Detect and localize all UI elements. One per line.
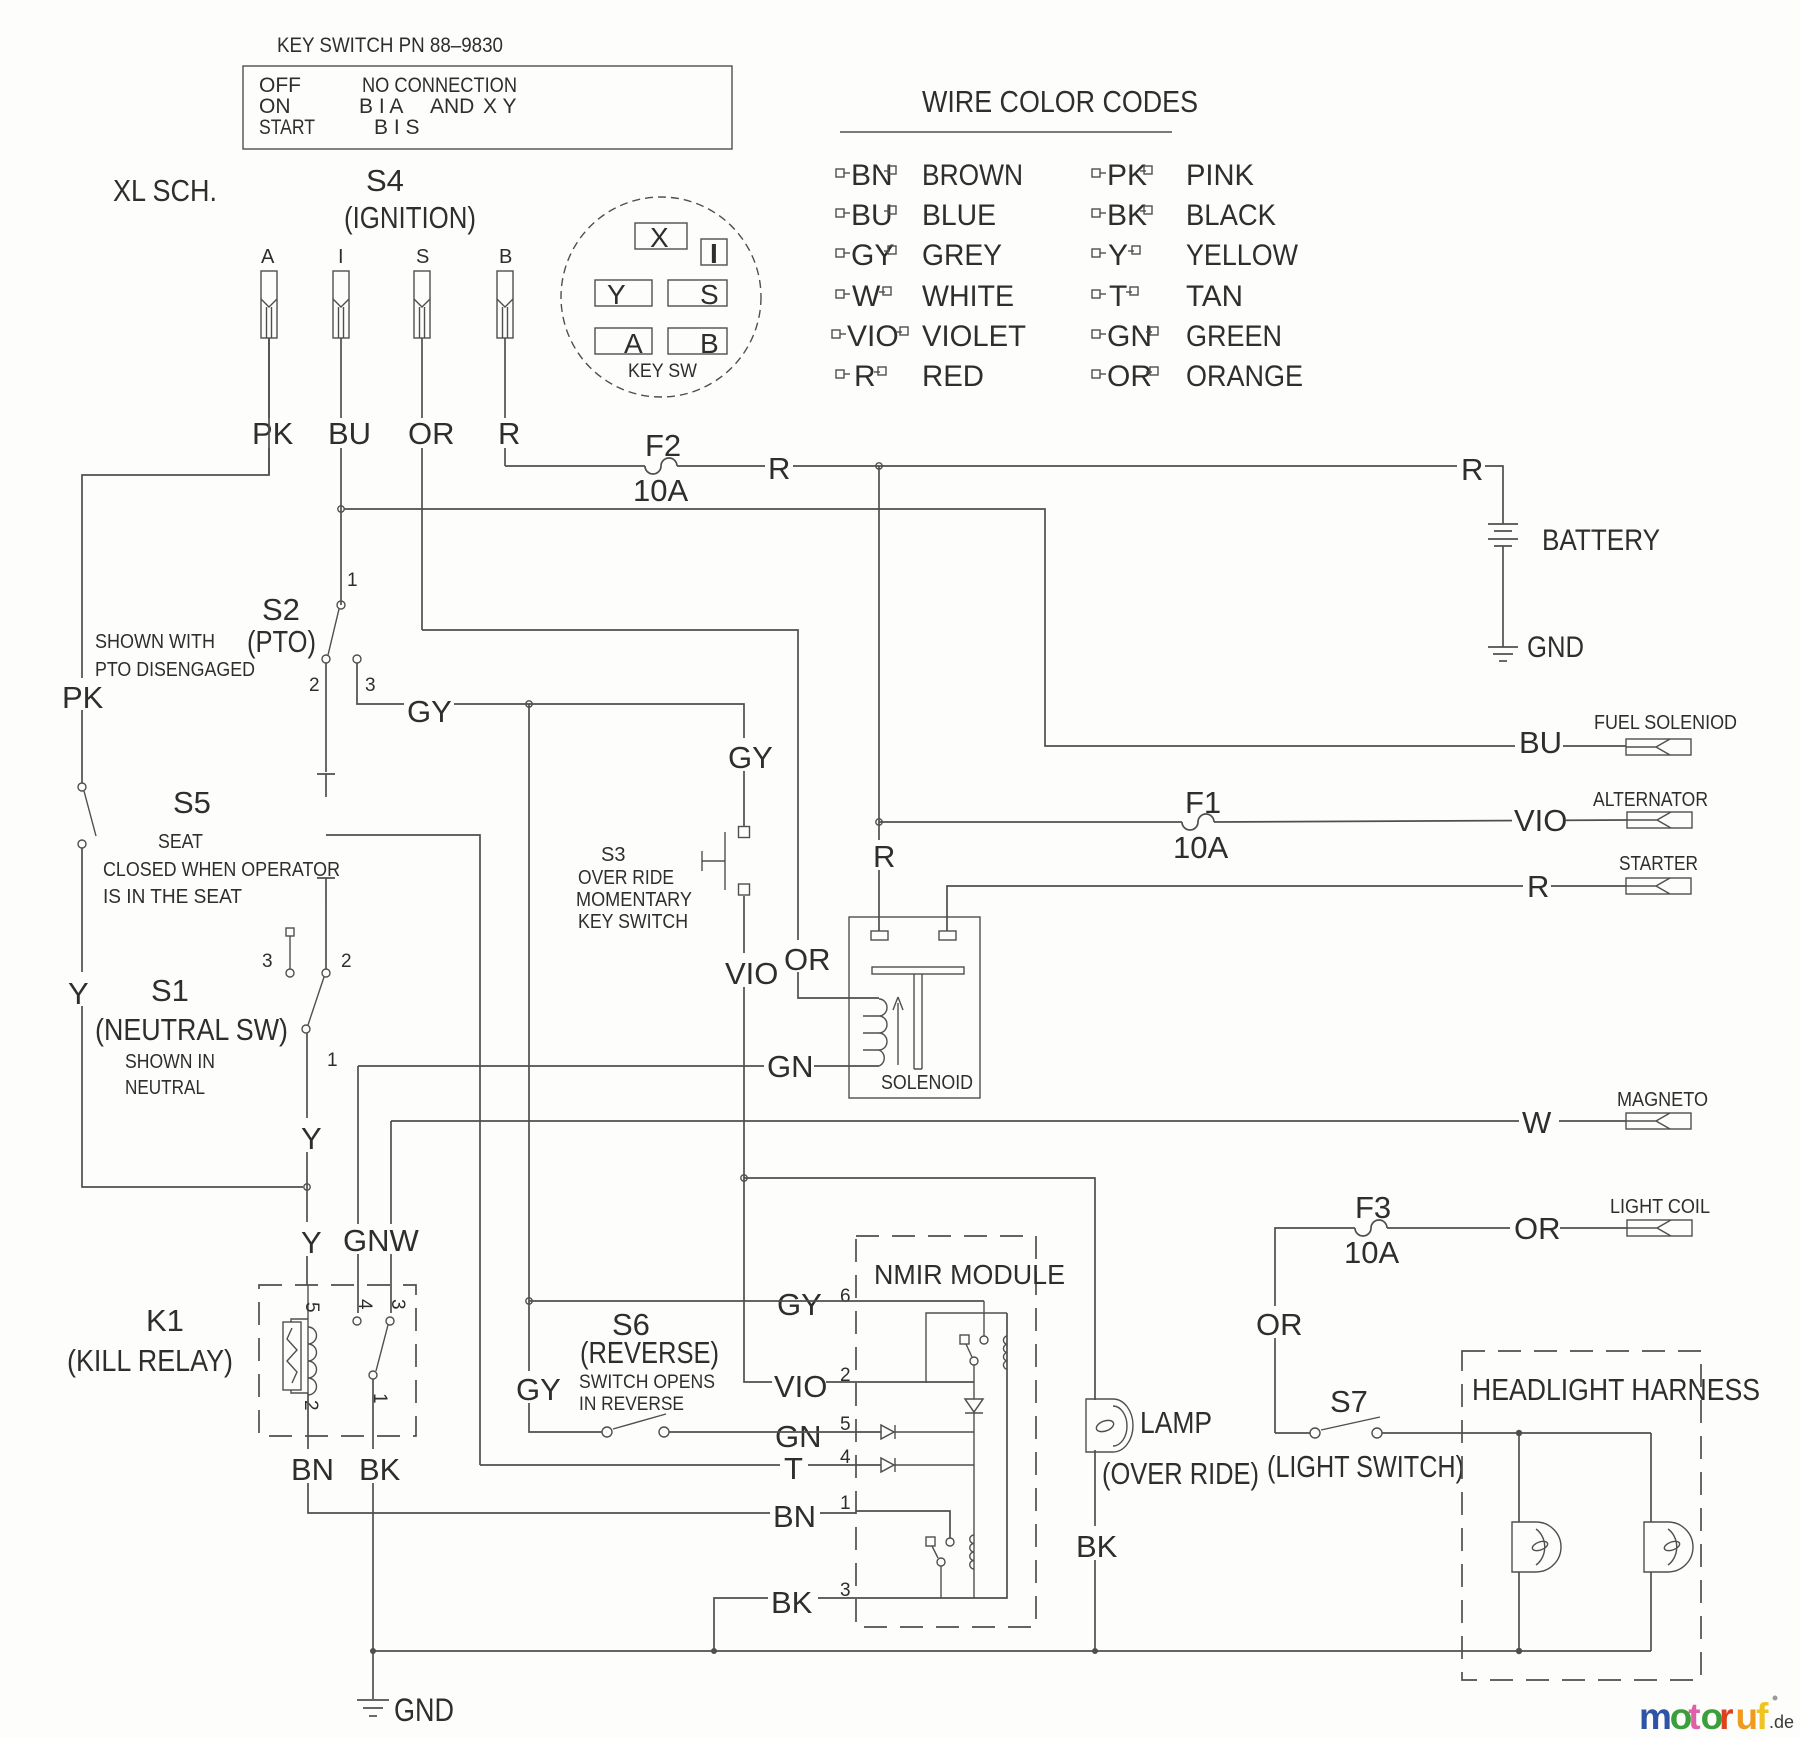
wire GY into pin6: [774, 1286, 824, 1322]
wire to right headlamp: [1650, 1433, 1652, 1522]
wire R label mid: [765, 451, 793, 486]
svg-text:10A: 10A: [1173, 830, 1228, 865]
wire OR label: [782, 940, 831, 977]
svg-text:NMIR MODULE: NMIR MODULE: [874, 1259, 1065, 1290]
headlamp right: [1644, 1522, 1693, 1572]
svg-text:1: 1: [347, 570, 358, 591]
svg-text:B: B: [499, 246, 512, 268]
wire pin S down: [421, 338, 423, 630]
svg-text:Y: Y: [607, 279, 626, 310]
wire GY from S2 pin3: [357, 663, 744, 826]
svg-text:5: 5: [301, 1302, 322, 1313]
wire OR label vertical: [1254, 1306, 1303, 1342]
svg-text:VIO: VIO: [847, 320, 899, 353]
svg-text:NEUTRAL: NEUTRAL: [125, 1077, 205, 1099]
svg-text:(REVERSE): (REVERSE): [580, 1335, 719, 1370]
node GY junction: [526, 701, 532, 707]
wire PK label: [250, 416, 294, 451]
legend row BN BROWN: [836, 159, 1023, 192]
legend row T TAN: [1092, 280, 1243, 313]
key sw terminal I: [701, 239, 727, 265]
svg-text:STARTER: STARTER: [1619, 853, 1698, 875]
svg-text:R: R: [768, 451, 790, 486]
svg-text:S1: S1: [151, 973, 189, 1008]
svg-text:W: W: [852, 280, 881, 313]
wire PK label left: [60, 678, 106, 715]
svg-text:GY: GY: [728, 740, 773, 775]
svg-text:START: START: [259, 116, 315, 139]
svg-text:BN: BN: [773, 1499, 816, 1534]
svg-text:R: R: [854, 360, 876, 393]
svg-text:GN: GN: [1107, 320, 1152, 353]
wire BU label: [326, 416, 371, 451]
svg-text:VIOLET: VIOLET: [922, 320, 1026, 353]
svg-text:BK: BK: [771, 1585, 813, 1620]
svg-text:(IGNITION): (IGNITION): [344, 200, 476, 235]
svg-text:3: 3: [840, 1580, 851, 1601]
wire BK from K1 contact down: [372, 1379, 374, 1651]
svg-text:S7: S7: [1330, 1384, 1368, 1419]
solenoid plunger stem: [914, 974, 922, 1069]
svg-text:1: 1: [327, 1050, 338, 1071]
svg-text:Y: Y: [301, 1121, 322, 1156]
svg-text:BROWN: BROWN: [922, 159, 1023, 192]
node harness top junction: [1516, 1430, 1522, 1436]
legend row VIO VIOLET: [832, 320, 1026, 353]
relay K1 coil: [283, 1285, 322, 1411]
svg-text:S4: S4: [366, 163, 404, 198]
svg-text:NO CONNECTION: NO CONNECTION: [362, 74, 517, 97]
svg-text:SHOWN WITH: SHOWN WITH: [95, 631, 215, 653]
svg-text:S5: S5: [173, 785, 211, 820]
svg-text:MOMENTARY: MOMENTARY: [576, 889, 692, 911]
wire VIO to alternator with fuse F1: [879, 821, 1182, 823]
svg-text:GY: GY: [516, 1372, 561, 1407]
wire S2 pin2 down to seat switch: [325, 663, 327, 772]
svg-text:R: R: [1461, 452, 1483, 487]
key sw terminal X: [635, 223, 687, 249]
wire BN from K1 coil to module pin1: [308, 1393, 856, 1513]
svg-text:F2: F2: [645, 428, 681, 463]
node R solenoid junction: [876, 463, 882, 469]
svg-text:KEY SWITCH PN 88–9830: KEY SWITCH PN 88–9830: [277, 34, 503, 57]
legend row Y YELLOW: [1092, 239, 1299, 272]
wire bottom ground bus: [373, 1650, 1651, 1652]
S4 connector pin B: [497, 246, 513, 338]
wire Y from PK switch down: [82, 848, 303, 1187]
svg-text:GY: GY: [851, 239, 894, 272]
svg-text:LIGHT COIL: LIGHT COIL: [1610, 1196, 1710, 1218]
S4 connector pin A: [261, 246, 277, 338]
wire OR light coil with fuse F3: [1275, 1228, 1355, 1433]
wire BK riser to module pin3: [714, 1598, 856, 1651]
svg-text:X: X: [650, 222, 669, 253]
svg-text:Y: Y: [68, 976, 89, 1011]
svg-text:4: 4: [354, 1299, 375, 1310]
wire R from key B to battery: [505, 465, 645, 467]
svg-text:CLOSED WHEN OPERATOR: CLOSED WHEN OPERATOR: [103, 859, 340, 881]
svg-text:SHOWN IN: SHOWN IN: [125, 1051, 215, 1073]
wire color codes legend: [840, 84, 1198, 132]
svg-text:GREEN: GREEN: [1186, 320, 1282, 353]
svg-text:X Y: X Y: [483, 95, 516, 118]
svg-text:GY: GY: [407, 694, 452, 729]
wire W from K1 pin3 to magneto: [391, 1120, 1626, 1122]
svg-text:S: S: [416, 246, 429, 268]
svg-text:f: f: [1756, 1696, 1769, 1737]
svg-text:PTO DISENGAGED: PTO DISENGAGED: [95, 659, 255, 681]
key switch connector circle: [561, 197, 761, 397]
svg-text:IS IN THE SEAT: IS IN THE SEAT: [103, 886, 242, 908]
svg-text:OR: OR: [784, 942, 831, 977]
svg-text:m: m: [1639, 1696, 1672, 1737]
ground GND right: [1488, 631, 1584, 664]
svg-text:PINK: PINK: [1186, 159, 1254, 192]
module diode D1 down: [965, 1365, 983, 1598]
svg-text:VIO: VIO: [725, 956, 778, 991]
switch S1 neutral: [262, 928, 352, 1071]
module relay2 coil: [970, 1535, 974, 1569]
node VIO lamp branch: [741, 1175, 747, 1181]
seat switch tap wire to module T: [326, 835, 480, 1465]
svg-text:MAGNETO: MAGNETO: [1617, 1089, 1708, 1111]
wire R label: [494, 416, 520, 451]
svg-text:HEADLIGHT HARNESS: HEADLIGHT HARNESS: [1472, 1372, 1760, 1407]
svg-text:T: T: [1109, 280, 1127, 313]
light coil connector: [1610, 1196, 1710, 1236]
magneto connector: [1617, 1089, 1708, 1129]
svg-text:BLACK: BLACK: [1186, 199, 1276, 232]
svg-text:OFF: OFF: [259, 74, 301, 97]
legend row OR ORANGE: [1092, 360, 1303, 393]
starter connector: [1619, 853, 1698, 894]
svg-text:BN: BN: [851, 159, 893, 192]
svg-text:1: 1: [840, 1493, 851, 1514]
svg-text:(LIGHT SWITCH): (LIGHT SWITCH): [1267, 1449, 1464, 1484]
alternator connector: [1593, 789, 1708, 828]
wire S6 to module pin5: [669, 1431, 856, 1433]
svg-text:A: A: [261, 246, 275, 268]
headlight harness box: [1462, 1351, 1701, 1680]
fuel solenoid connector: [1594, 712, 1737, 755]
wire Y labels: [297, 1118, 323, 1156]
svg-text:S2: S2: [262, 592, 300, 627]
svg-text:.de: .de: [1769, 1712, 1794, 1732]
solenoid plunger T bar: [872, 967, 964, 974]
svg-text:OVER RIDE: OVER RIDE: [578, 867, 674, 889]
key switch info box: [243, 66, 732, 149]
svg-text:3: 3: [387, 1299, 408, 1310]
svg-text:GNW: GNW: [343, 1223, 420, 1258]
svg-text:PK: PK: [1107, 159, 1147, 192]
wire GNW label: [339, 1223, 420, 1258]
svg-text:BU: BU: [328, 416, 371, 451]
wire Y from S1 pin1 down to K1: [306, 1033, 308, 1285]
node Y junction: [304, 1184, 310, 1190]
svg-text:BK: BK: [359, 1452, 401, 1487]
svg-text:BLUE: BLUE: [922, 199, 996, 232]
svg-text:10A: 10A: [633, 473, 688, 508]
switch PK (PTO pole): [78, 783, 96, 848]
svg-text:BN: BN: [291, 1452, 334, 1487]
svg-text:K1: K1: [146, 1303, 184, 1338]
svg-text:XL SCH.: XL SCH.: [113, 173, 217, 208]
relay K1 contact: [353, 1299, 408, 1404]
wire pin I down: [340, 338, 342, 605]
svg-text:GN: GN: [767, 1049, 814, 1084]
switch S2 PTO: [247, 570, 376, 696]
svg-text:Y: Y: [301, 1225, 322, 1260]
svg-text:2: 2: [309, 675, 320, 696]
legend row PK PINK: [1092, 159, 1254, 192]
svg-text:GY: GY: [777, 1287, 822, 1322]
wire battery to ground: [1502, 546, 1504, 647]
seat switch S5 plunger top: [317, 774, 335, 797]
wire GY label horizontal: [404, 692, 454, 729]
node BU junction: [338, 506, 344, 512]
wire OR label: [406, 416, 455, 451]
svg-text:LAMP: LAMP: [1140, 1405, 1212, 1440]
wire PK from key A down left: [82, 338, 269, 783]
svg-text:u: u: [1736, 1696, 1759, 1737]
svg-text:10A: 10A: [1344, 1235, 1399, 1270]
svg-text:VIO: VIO: [774, 1369, 827, 1404]
legend row GN GREEN: [1092, 320, 1282, 353]
module relay1 coil: [1003, 1336, 1007, 1369]
svg-text:GN: GN: [775, 1419, 822, 1454]
svg-text:R: R: [873, 839, 895, 874]
svg-text:OR: OR: [1256, 1307, 1303, 1342]
wire pin A down: [268, 338, 270, 475]
svg-text:SOLENOID: SOLENOID: [881, 1072, 973, 1094]
battery B1: [1488, 524, 1660, 557]
svg-text:YELLOW: YELLOW: [1186, 239, 1299, 272]
seat switch S5 plunger bottom: [317, 878, 335, 900]
svg-text:BU: BU: [851, 199, 893, 232]
legend row BK BLACK: [1092, 199, 1276, 232]
svg-text:OR: OR: [1514, 1211, 1561, 1246]
svg-text:t: t: [1688, 1696, 1700, 1737]
svg-text:SWITCH OPENS: SWITCH OPENS: [579, 1372, 715, 1393]
svg-text:BK: BK: [1107, 199, 1147, 232]
svg-text:BK: BK: [1076, 1529, 1118, 1564]
wire R label above solenoid: [869, 839, 895, 874]
lamp override: [1086, 1399, 1133, 1452]
svg-text:B: B: [700, 328, 719, 359]
S4 connector pin S: [414, 246, 430, 338]
key sw terminal S: [668, 280, 727, 306]
wire GN into pin5 + diode D2: [856, 1431, 881, 1433]
svg-text:PK: PK: [252, 416, 294, 451]
svg-text:r: r: [1719, 1696, 1733, 1737]
svg-text:FUEL SOLENIOD: FUEL SOLENIOD: [1594, 712, 1737, 734]
svg-text:I: I: [710, 238, 718, 269]
wire R to starter: [947, 886, 1626, 931]
svg-text:PK: PK: [62, 680, 104, 715]
key sw terminal A: [595, 328, 652, 354]
module relay2 contact: [926, 1537, 954, 1598]
wire to left headlamp: [1518, 1433, 1520, 1522]
svg-text:S: S: [700, 279, 719, 310]
svg-text:A: A: [624, 328, 643, 359]
svg-text:GND: GND: [394, 1692, 454, 1728]
svg-text:(OVER RIDE): (OVER RIDE): [1102, 1456, 1259, 1491]
legend row BU BLUE: [836, 199, 996, 232]
svg-text:W: W: [1522, 1105, 1552, 1140]
svg-text:WIRE COLOR CODES: WIRE COLOR CODES: [922, 84, 1198, 119]
node GY module junction: [526, 1298, 532, 1304]
svg-text:OR: OR: [1107, 360, 1152, 393]
legend row GY GREY: [836, 239, 1002, 272]
wire GY down to S6: [529, 704, 602, 1432]
module relay1 contact: [960, 1301, 988, 1365]
svg-text:F3: F3: [1355, 1190, 1391, 1225]
headlamp left: [1512, 1522, 1561, 1572]
svg-text:TAN: TAN: [1186, 280, 1243, 313]
wire BN into pin1: [856, 1511, 950, 1538]
svg-text:2: 2: [840, 1365, 851, 1386]
svg-text:VIO: VIO: [1514, 803, 1567, 838]
svg-text:IN REVERSE: IN REVERSE: [579, 1394, 684, 1415]
node BK gnd junction: [370, 1648, 376, 1654]
wire GNW vertical to K1 pin4: [357, 1066, 359, 1313]
module top link: [926, 1313, 1007, 1383]
wire GY label vertical: [725, 738, 773, 775]
svg-text:ON: ON: [259, 95, 291, 118]
key sw terminal B: [668, 328, 727, 354]
svg-text:AND: AND: [430, 95, 474, 118]
solenoid coil: [879, 999, 887, 1066]
wire VIO branch to lamp: [744, 1178, 1095, 1400]
svg-text:2: 2: [341, 951, 352, 972]
svg-text:ALTERNATOR: ALTERNATOR: [1593, 789, 1708, 811]
svg-text:2: 2: [300, 1400, 321, 1411]
svg-text:I: I: [338, 246, 344, 268]
svg-text:(KILL RELAY): (KILL RELAY): [67, 1343, 233, 1378]
svg-text:GREY: GREY: [922, 239, 1002, 272]
svg-text:T: T: [784, 1451, 803, 1486]
wire R down to solenoid: [878, 466, 880, 931]
relay K1 box: [259, 1285, 416, 1436]
svg-text:B I A: B I A: [359, 95, 403, 118]
NMIR module box: [856, 1236, 1036, 1627]
svg-text:(PTO): (PTO): [247, 624, 316, 659]
switch S3 momentary: [702, 827, 750, 896]
solenoid arrow: [893, 997, 903, 1065]
svg-text:RED: RED: [922, 360, 984, 393]
wire S7 to harness: [1382, 1432, 1651, 1434]
svg-text:ORANGE: ORANGE: [1186, 360, 1303, 393]
svg-text:SEAT: SEAT: [158, 831, 203, 853]
wire S5 to S1: [325, 900, 327, 969]
wire BK into pin3: [856, 1313, 1007, 1598]
svg-text:(NEUTRAL SW): (NEUTRAL SW): [95, 1012, 288, 1047]
wire VIO into pin2: [856, 1381, 974, 1383]
legend row R RED: [836, 360, 984, 393]
solenoid terminal right: [939, 931, 956, 940]
wire GN from K1 to solenoid coil: [358, 1065, 879, 1067]
svg-text:R: R: [498, 416, 520, 451]
key sw terminal Y: [595, 280, 652, 306]
svg-text:3: 3: [262, 951, 273, 972]
svg-text:B I S: B I S: [374, 116, 420, 139]
wire BU label: [1515, 725, 1563, 760]
wire VIO from S3 down to module pin2: [744, 896, 856, 1382]
svg-text:R: R: [1527, 869, 1549, 904]
wire OR from key S to solenoid coil: [422, 630, 879, 998]
svg-text:OR: OR: [408, 416, 455, 451]
svg-text:S3: S3: [601, 844, 625, 866]
logo motoruf.de: [1639, 1696, 1794, 1738]
wire R label at battery: [1457, 452, 1485, 487]
svg-text:GND: GND: [1527, 631, 1584, 664]
wire BU to fuel solenoid: [344, 509, 1626, 746]
svg-text:Y: Y: [1108, 239, 1128, 272]
node F1 branch junction: [876, 819, 882, 825]
svg-text:BU: BU: [1519, 725, 1562, 760]
wire pin B down: [504, 338, 506, 466]
legend row W WHITE: [836, 280, 1014, 313]
solenoid box: [849, 917, 980, 1098]
wire T into pin4 + diode D3: [480, 1464, 881, 1466]
svg-text:3: 3: [365, 675, 376, 696]
svg-text:6: 6: [840, 1286, 851, 1307]
svg-text:KEY SWITCH: KEY SWITCH: [578, 911, 688, 933]
svg-text:BATTERY: BATTERY: [1542, 524, 1660, 557]
S4 connector pin I: [333, 246, 349, 338]
solenoid terminal left: [871, 931, 888, 940]
svg-text:KEY SW: KEY SW: [628, 361, 697, 382]
wire BK from lamp to bus: [1094, 1450, 1096, 1651]
ground GND bottom: [357, 1651, 454, 1728]
svg-text:WHITE: WHITE: [922, 280, 1014, 313]
